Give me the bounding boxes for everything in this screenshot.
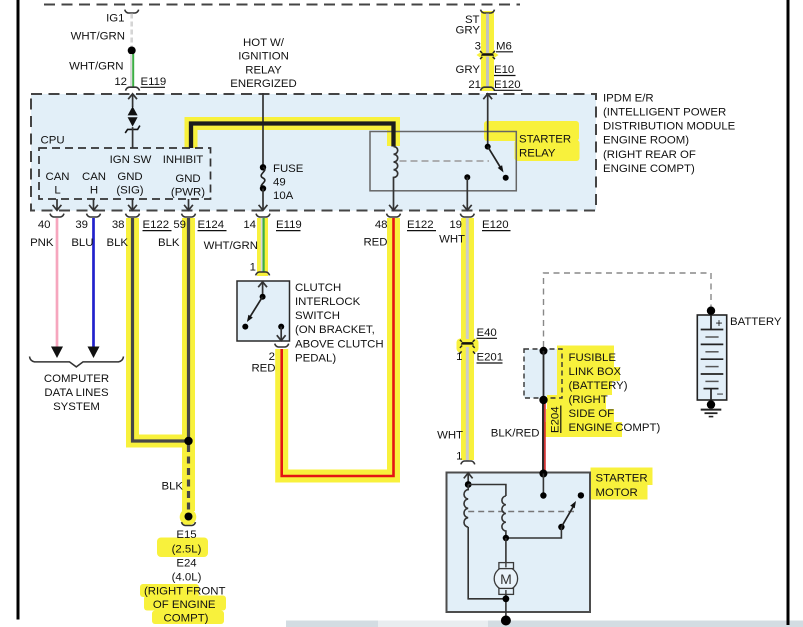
svg-text:GND: GND bbox=[175, 173, 200, 185]
left page frame line bbox=[17, 0, 20, 620]
highlight WHT/GRN wire pin 14 bbox=[257, 218, 268, 276]
svg-text:BLK: BLK bbox=[161, 481, 183, 493]
wire PNK CAN L bbox=[51, 218, 63, 358]
wire BLU CAN H bbox=[88, 218, 100, 358]
svg-text:RELAY: RELAY bbox=[519, 148, 556, 160]
top page dashed edge bbox=[44, 4, 520, 6]
connector E120 pin 21 bbox=[481, 87, 495, 90]
wire WHT pin 19 down bbox=[466, 218, 469, 461]
svg-text:ENGINE COMPT): ENGINE COMPT) bbox=[569, 422, 661, 434]
svg-text:(SIG): (SIG) bbox=[116, 185, 143, 197]
wire to solenoid coils bbox=[468, 485, 506, 497]
svg-text:ENGINE COMPT): ENGINE COMPT) bbox=[603, 163, 695, 175]
svg-text:1: 1 bbox=[250, 262, 256, 274]
svg-text:E120: E120 bbox=[482, 219, 509, 231]
svg-text:3: 3 bbox=[475, 41, 481, 53]
relay mechanical dashed link bbox=[400, 160, 490, 162]
svg-text:PEDAL): PEDAL) bbox=[295, 353, 336, 365]
svg-text:SYSTEM: SYSTEM bbox=[53, 401, 100, 413]
svg-text:−: − bbox=[717, 387, 724, 401]
CPU inner dashed box bbox=[39, 148, 211, 199]
fusible link box fill bbox=[524, 349, 562, 398]
svg-text:+: + bbox=[716, 316, 723, 330]
wire BLK/RED fusible link to starter bbox=[543, 401, 545, 474]
svg-text:(BATTERY): (BATTERY) bbox=[569, 380, 628, 392]
svg-text:48: 48 bbox=[375, 219, 388, 231]
wire switch arm to coil junction bbox=[506, 527, 562, 538]
svg-text:SIDE OF: SIDE OF bbox=[569, 408, 615, 420]
arrow into IPDM at pin 12 bbox=[128, 94, 137, 107]
ground dot starter motor bbox=[501, 616, 511, 626]
wire HOT feed to fuse bbox=[262, 93, 264, 165]
svg-text:19: 19 bbox=[449, 219, 462, 231]
svg-text:COMPUTER: COMPUTER bbox=[44, 373, 109, 385]
connector name E10 bbox=[494, 64, 516, 76]
svg-text:INHIBIT: INHIBIT bbox=[163, 154, 204, 166]
connector name E201 bbox=[477, 352, 504, 364]
wire coil1 bottom to motor bottom bbox=[468, 527, 506, 599]
highlight STARTER MOTOR label bbox=[591, 468, 653, 500]
highlight BLK ground wires bbox=[133, 218, 189, 441]
connector name E40 bbox=[477, 327, 498, 339]
IPDM E/R box fill bbox=[31, 94, 596, 211]
svg-text:WHT/GRN: WHT/GRN bbox=[69, 61, 123, 73]
highlight COMPT) label bbox=[152, 611, 224, 625]
arrow into clutch switch bbox=[258, 282, 267, 297]
highlight (2.5L) label bbox=[157, 538, 208, 558]
battery box fill bbox=[697, 315, 726, 400]
svg-text:FUSIBLE: FUSIBLE bbox=[569, 352, 617, 364]
ground symbol battery bbox=[701, 410, 722, 417]
junction dot coils to motor bbox=[503, 535, 509, 541]
label HOT W/ IGNITION RELAY ENERGIZED bbox=[230, 37, 296, 90]
IPDM E/R box dashed border bbox=[31, 94, 596, 211]
svg-text:2: 2 bbox=[269, 351, 275, 363]
dashed wire battery to fusible link bbox=[544, 273, 712, 347]
svg-text:FUSE: FUSE bbox=[273, 163, 304, 175]
motor M bbox=[494, 563, 517, 599]
starter motor box fill bbox=[447, 473, 591, 613]
thick INHIBIT wire to relay coil bbox=[191, 124, 394, 149]
svg-text:STARTER: STARTER bbox=[519, 134, 571, 146]
connector IG1 top bbox=[125, 10, 139, 13]
connector E15 bbox=[182, 522, 196, 525]
svg-text:E40: E40 bbox=[477, 327, 497, 339]
svg-text:59: 59 bbox=[173, 219, 186, 231]
svg-text:(ON BRACKET,: (ON BRACKET, bbox=[295, 324, 375, 336]
svg-text:E120: E120 bbox=[494, 79, 521, 91]
svg-text:IG1: IG1 bbox=[106, 13, 124, 25]
svg-text:(2.5L): (2.5L) bbox=[172, 544, 202, 556]
svg-text:GND: GND bbox=[117, 171, 142, 183]
svg-text:GRY: GRY bbox=[456, 64, 481, 76]
svg-text:WHT: WHT bbox=[439, 234, 465, 246]
connector E119 pin 12 bbox=[126, 87, 140, 90]
wire ST into relay switch bbox=[483, 94, 492, 147]
svg-text:WHT/GRN: WHT/GRN bbox=[204, 240, 258, 252]
relay switch output dot to pin 19 bbox=[463, 174, 472, 210]
svg-text:LINK BOX: LINK BOX bbox=[569, 366, 622, 378]
connector E40 E201 inline bbox=[460, 340, 475, 354]
svg-text:WHT: WHT bbox=[437, 430, 463, 442]
connector name E122 right bbox=[407, 219, 436, 231]
wire IG1 dashed gray bbox=[130, 14, 133, 48]
junction dot BLK grounds bbox=[184, 437, 192, 445]
connector starter motor pin 1 bbox=[461, 461, 475, 464]
svg-text:IGN SW: IGN SW bbox=[110, 154, 152, 166]
svg-text:10A: 10A bbox=[273, 190, 294, 202]
label STARTER RELAY bbox=[519, 134, 571, 160]
svg-text:40: 40 bbox=[38, 219, 51, 231]
svg-text:49: 49 bbox=[273, 177, 286, 189]
svg-text:CAN: CAN bbox=[82, 171, 106, 183]
svg-text:ENGINE ROOM): ENGINE ROOM) bbox=[603, 135, 689, 147]
svg-text:(INTELLIGENT POWER: (INTELLIGENT POWER bbox=[603, 107, 726, 119]
svg-text:WHT/GRN: WHT/GRN bbox=[71, 31, 125, 43]
connector clutch pin 2 bbox=[275, 344, 289, 347]
clutch interlock switch box border bbox=[237, 281, 290, 341]
svg-text:(4.0L): (4.0L) bbox=[172, 572, 202, 584]
svg-text:RELAY: RELAY bbox=[245, 64, 282, 76]
svg-text:1: 1 bbox=[456, 351, 462, 363]
svg-text:E15: E15 bbox=[176, 529, 196, 541]
svg-text:BATTERY: BATTERY bbox=[730, 316, 782, 328]
starter motor junction dot bbox=[465, 481, 472, 488]
wire WHT/GRN to pin 12 bbox=[131, 54, 133, 87]
solenoid coil 1 bbox=[464, 485, 468, 528]
svg-text:H: H bbox=[90, 185, 98, 197]
wire RED clutch to relay pin 48 bbox=[282, 218, 394, 476]
connector E119 clutch pin 1 bbox=[256, 272, 270, 275]
svg-text:BLK: BLK bbox=[158, 237, 180, 249]
clutch interlock switch box fill bbox=[237, 281, 290, 341]
battery box border bbox=[697, 315, 726, 400]
svg-text:IPDM E/R: IPDM E/R bbox=[603, 92, 654, 104]
zener clamp diode pair bbox=[125, 106, 140, 148]
wire motor to ground bbox=[505, 594, 507, 620]
junction dot motor bottom bbox=[503, 595, 510, 602]
right page frame line bbox=[787, 0, 790, 625]
clutch switch contact dots bbox=[242, 324, 284, 330]
label GND (SIG) bbox=[116, 171, 143, 197]
svg-text:(RIGHT REAR OF: (RIGHT REAR OF bbox=[603, 149, 696, 161]
label (RIGHT FRONT OF ENGINE COMPT) bbox=[144, 586, 225, 625]
svg-text:21: 21 bbox=[468, 79, 481, 91]
wire BLK pin 59 bbox=[187, 218, 190, 441]
label STARTER MOTOR bbox=[596, 473, 648, 500]
relay switch arm bbox=[488, 147, 504, 173]
label CLUTCH INTERLOCK SWITCH bbox=[295, 282, 384, 365]
label FUSE 49 10A bbox=[273, 163, 304, 202]
svg-text:M6: M6 bbox=[496, 41, 512, 53]
label GND (PWR) bbox=[171, 173, 205, 199]
svg-text:ABOVE CLUTCH: ABOVE CLUTCH bbox=[295, 339, 384, 351]
relay switch common dot bbox=[485, 144, 491, 150]
svg-text:14: 14 bbox=[243, 219, 256, 231]
arrow out of IPDM pin 48 bbox=[389, 205, 398, 210]
svg-text:STARTER: STARTER bbox=[596, 473, 648, 485]
relay coil bbox=[394, 147, 398, 206]
battery plates bbox=[701, 315, 724, 400]
arrow out of IPDM pin 14 bbox=[259, 205, 268, 210]
svg-text:E122: E122 bbox=[143, 219, 170, 231]
highlight INHIBIT wire path bbox=[191, 124, 394, 149]
svg-text:E122: E122 bbox=[407, 219, 434, 231]
svg-text:INTERLOCK: INTERLOCK bbox=[295, 296, 361, 308]
svg-text:12: 12 bbox=[114, 76, 127, 88]
starter relay box bbox=[370, 132, 516, 191]
arrow into starter motor bbox=[464, 473, 473, 485]
connector name E124 bbox=[198, 219, 227, 231]
solenoid coil 2 bbox=[502, 496, 506, 538]
connectors below IPDM pins bbox=[50, 214, 474, 217]
starter switch contact dot bbox=[540, 492, 546, 498]
highlight FUSIBLE LINK BOX labels bbox=[545, 346, 622, 438]
svg-text:HOT W/: HOT W/ bbox=[243, 37, 285, 49]
label COMPUTER DATA LINES SYSTEM bbox=[44, 373, 109, 413]
svg-text:DISTRIBUTION MODULE: DISTRIBUTION MODULE bbox=[603, 121, 736, 133]
relay switch NO contact dot bbox=[503, 175, 509, 181]
label CAN H bbox=[82, 171, 106, 197]
highlight (RIGHT FRONT label bbox=[140, 584, 199, 597]
highlight E15 ground dot bbox=[180, 509, 197, 526]
highlight RED wire clutch to relay bbox=[282, 218, 394, 476]
svg-text:BLK: BLK bbox=[106, 237, 128, 249]
svg-text:CPU: CPU bbox=[41, 135, 65, 147]
brace computer data lines bbox=[30, 357, 124, 367]
svg-text:GRY: GRY bbox=[456, 25, 481, 37]
fusible link box dashed border bbox=[524, 349, 562, 398]
connector name E204 rotated bbox=[550, 406, 562, 434]
svg-text:E10: E10 bbox=[494, 64, 514, 76]
highlight STARTER RELAY label bbox=[484, 121, 580, 161]
connector name E119 mid bbox=[276, 219, 302, 231]
svg-text:M: M bbox=[500, 571, 512, 587]
arrows CPU pins bbox=[53, 199, 193, 210]
wire out of clutch switch pin 2 bbox=[277, 327, 286, 341]
clutch switch common dot bbox=[260, 294, 266, 300]
svg-text:RED: RED bbox=[363, 237, 387, 249]
clutch switch arm bbox=[247, 297, 263, 322]
svg-text:CLUTCH: CLUTCH bbox=[295, 282, 341, 294]
junction dot IG1 bbox=[128, 47, 136, 55]
connector name E120 pin 19 bbox=[482, 219, 511, 231]
svg-text:BLU: BLU bbox=[71, 237, 93, 249]
wire to motor bbox=[505, 538, 507, 564]
svg-text:L: L bbox=[54, 185, 60, 197]
connector name E119 top bbox=[141, 76, 167, 88]
starter switch arm bbox=[558, 501, 576, 530]
svg-text:DATA LINES: DATA LINES bbox=[44, 387, 109, 399]
svg-text:1: 1 bbox=[456, 451, 462, 463]
svg-text:PNK: PNK bbox=[30, 237, 54, 249]
svg-text:E119: E119 bbox=[276, 219, 302, 231]
label IPDM E/R block bbox=[603, 92, 736, 174]
fusible link dots and wire bbox=[539, 347, 547, 404]
highlight OF ENGINE label bbox=[144, 596, 226, 611]
svg-text:COMPT): COMPT) bbox=[164, 613, 209, 625]
svg-text:OF ENGINE: OF ENGINE bbox=[153, 599, 216, 611]
svg-text:SWITCH: SWITCH bbox=[295, 310, 340, 322]
ground dot E15 bbox=[185, 513, 193, 521]
fuse 49 symbol bbox=[260, 164, 266, 210]
motor mechanical dashed link bbox=[468, 511, 574, 513]
wire to starter switch contact bbox=[542, 474, 544, 496]
dashed BLK wire to ground bbox=[187, 445, 190, 513]
svg-text:(PWR): (PWR) bbox=[171, 187, 205, 199]
svg-text:E119: E119 bbox=[141, 76, 167, 88]
svg-text:E204: E204 bbox=[550, 406, 562, 433]
svg-text:E201: E201 bbox=[477, 352, 504, 364]
wire WHT/GRN pin 14 to clutch switch bbox=[262, 218, 264, 272]
wire BLK pin 38 bbox=[133, 218, 189, 441]
battery terminal dot bottom bbox=[707, 400, 715, 408]
connector name M6 bbox=[496, 41, 513, 53]
svg-text:38: 38 bbox=[112, 219, 125, 231]
battery terminal dot top bbox=[707, 307, 715, 315]
svg-text:(RIGHT FRONT: (RIGHT FRONT bbox=[144, 586, 225, 598]
wire ST GRY top bbox=[481, 10, 495, 87]
junction dot at starter motor top bbox=[539, 470, 547, 478]
highlight ST wire bbox=[477, 11, 499, 91]
svg-text:ENERGIZED: ENERGIZED bbox=[230, 78, 296, 90]
svg-text:CAN: CAN bbox=[45, 171, 69, 183]
connector name E120 top bbox=[494, 79, 523, 91]
scrollbar strip bottom bbox=[286, 621, 803, 627]
svg-text:BLK/RED: BLK/RED bbox=[491, 428, 540, 440]
svg-text:E24: E24 bbox=[176, 558, 196, 570]
starter switch NO dot bbox=[578, 492, 584, 498]
label FUSIBLE LINK BOX bbox=[569, 352, 661, 434]
svg-text:(RIGHT: (RIGHT bbox=[569, 394, 608, 406]
highlight WHT wire pin 19 bbox=[457, 218, 479, 460]
starter motor box border bbox=[447, 473, 591, 613]
svg-text:E124: E124 bbox=[198, 219, 225, 231]
svg-text:RED: RED bbox=[251, 363, 275, 375]
connector M6 inline bbox=[480, 51, 495, 59]
svg-text:39: 39 bbox=[75, 219, 88, 231]
svg-text:IGNITION: IGNITION bbox=[238, 51, 289, 63]
label CAN L bbox=[45, 171, 69, 197]
connector name E122 left bbox=[143, 219, 172, 231]
svg-text:MOTOR: MOTOR bbox=[596, 487, 638, 499]
